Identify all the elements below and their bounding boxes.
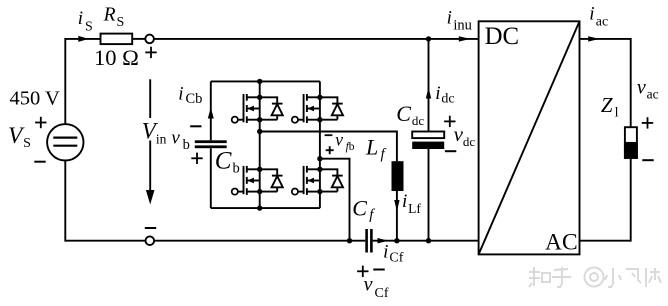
bridge bottom rail xyxy=(211,207,320,209)
plus node wire right leg to Cf drop xyxy=(320,159,350,241)
diode D2 (body diode Q2) xyxy=(320,97,343,119)
node Q4 drain xyxy=(317,167,322,172)
label plus VS xyxy=(35,117,46,128)
arrow iinu xyxy=(459,36,471,41)
arrow iCb xyxy=(208,108,214,119)
Vin measurement line upper segment xyxy=(149,79,151,118)
resistor RS body xyxy=(101,34,133,45)
terminal top (open circle) xyxy=(145,35,154,44)
node bottom bus / Cdc xyxy=(426,238,431,243)
Vin measurement line lower segment with arrow xyxy=(149,141,151,197)
node bottom bus / Cf drop xyxy=(347,238,352,243)
arrow iac xyxy=(588,36,599,41)
transistor Q2 (top right) xyxy=(292,94,320,123)
inductor Lf body xyxy=(392,161,404,191)
node Q2 source xyxy=(317,117,322,122)
wire bottom bus terminal to Cf xyxy=(154,240,365,242)
label plus vCf xyxy=(357,266,368,277)
Cdc branch upper wire xyxy=(428,39,430,132)
converter DC/AC box xyxy=(479,21,580,254)
transistor Q3 (bottom left) xyxy=(232,166,260,195)
arrow idc (up) xyxy=(426,87,431,99)
transistor Q1 (top left) xyxy=(232,94,260,123)
diode D4 (body diode Q4) xyxy=(320,169,343,191)
svg-text:AC: AC xyxy=(545,229,578,255)
transistor Q4 (bottom right) xyxy=(292,166,320,195)
node top rail / left leg xyxy=(257,79,262,84)
voltage source VS circle xyxy=(47,124,83,160)
voltage source VS inner bars xyxy=(53,137,77,139)
label minus vdc xyxy=(445,150,456,152)
wire top bus resistor to terminal xyxy=(132,38,145,40)
arrow iLf (down) xyxy=(394,200,399,212)
node left leg / vfb wire xyxy=(257,129,262,134)
capacitor Cdc top plate xyxy=(412,132,444,139)
load Zl body outline xyxy=(625,127,637,158)
node Q3 drain xyxy=(257,167,262,172)
Cb branch lower wire xyxy=(210,148,212,208)
arrow Vin (down) xyxy=(146,190,155,205)
Cb branch upper wire xyxy=(210,81,212,140)
node Q1 drain xyxy=(257,95,262,100)
arrow iCf xyxy=(378,238,389,243)
capacitor Cdc bottom plate xyxy=(412,142,444,149)
capacitor Cb plates xyxy=(195,140,227,143)
node top bus / Cdc branch xyxy=(426,36,431,41)
node right leg plus terminal xyxy=(317,156,322,161)
wire top bus terminal to DC box xyxy=(154,38,479,40)
label minus Zl xyxy=(642,159,653,161)
bridge top rail xyxy=(211,80,320,82)
node bottom bus / Lf xyxy=(394,238,399,243)
vfb output wire from left leg to Lf xyxy=(260,132,397,162)
label plus Vin xyxy=(145,47,156,58)
diode D3 (body diode Q3) xyxy=(260,169,283,191)
label minus vCf xyxy=(373,269,384,271)
label plus Zl xyxy=(642,117,653,128)
node Q2 drain xyxy=(317,95,322,100)
wire bottom bus Cf to DC box xyxy=(373,240,479,242)
svg-text:10 Ω: 10 Ω xyxy=(94,45,139,70)
node Q3 source xyxy=(257,189,262,194)
wire source bottom to bottom bus to terminal xyxy=(65,161,145,241)
arrow iS xyxy=(78,36,88,42)
Lf bottom wire xyxy=(396,191,398,241)
diode D1 (body diode Q1) xyxy=(260,97,283,119)
label plus vdc xyxy=(444,116,455,127)
watermark zhihu xyxy=(529,267,661,287)
load Zl filled half xyxy=(625,143,637,158)
left leg wire xyxy=(259,81,261,208)
terminal bottom (open circle) xyxy=(146,236,155,245)
label plus vb xyxy=(191,153,202,164)
right leg wire xyxy=(319,81,321,208)
node Q4 source xyxy=(317,189,322,194)
svg-text:DC: DC xyxy=(485,23,519,50)
wire DC box to load top xyxy=(580,39,631,127)
Cdc branch lower wire xyxy=(428,149,430,241)
label plus vfb xyxy=(326,146,334,154)
svg-text:450 V: 450 V xyxy=(10,88,61,110)
wire top bus left from source corner to resistor xyxy=(65,39,100,124)
label minus vfb xyxy=(325,134,333,136)
label minus Vin xyxy=(145,227,156,229)
capacitor Cf plates xyxy=(365,229,368,253)
wire load bottom to DC box xyxy=(580,158,631,241)
converter diagonal xyxy=(479,21,580,254)
node bottom rail / left leg xyxy=(257,205,262,210)
label minus vb xyxy=(190,125,201,127)
node Q1 source xyxy=(257,117,262,122)
label minus VS xyxy=(34,161,45,163)
